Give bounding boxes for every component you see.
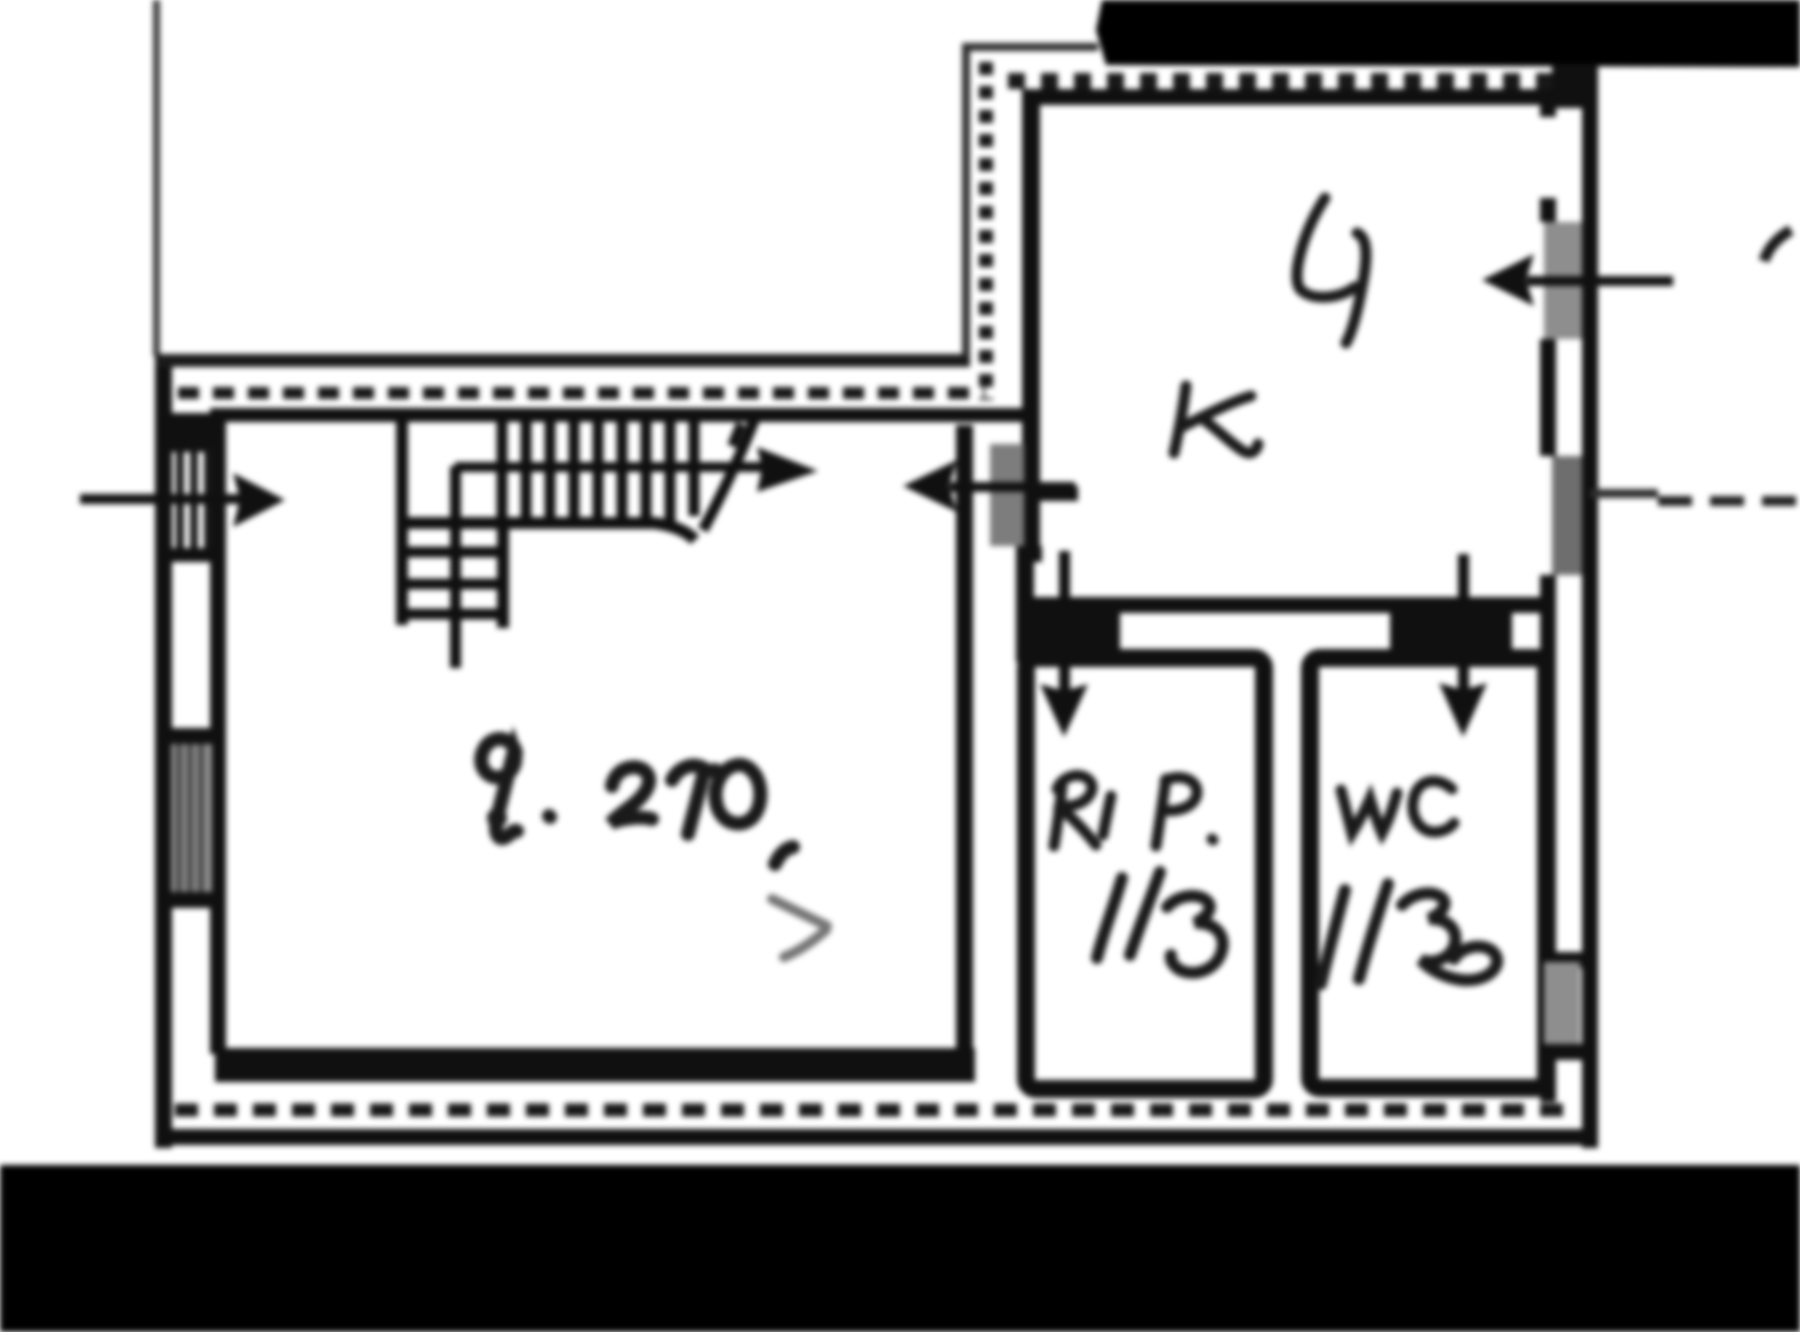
label K (K room) bbox=[1174, 386, 1258, 453]
inner wall left line bbox=[210, 408, 226, 1054]
handwritten chevron (main room) bbox=[772, 899, 827, 957]
stairwell left line bbox=[396, 418, 408, 625]
dashed insulation line top wall bbox=[178, 387, 985, 399]
K top-right wall corner bbox=[1552, 64, 1598, 108]
arrow into main room from hall (head) bbox=[903, 460, 957, 512]
outer wall left bbox=[155, 354, 172, 1148]
entrance arrow left (head) bbox=[233, 473, 285, 527]
label WC (wc room) bbox=[1341, 781, 1454, 833]
neighbour wall line right bbox=[1590, 489, 1658, 498]
window K1 (right wall of K, shaded) bbox=[1544, 222, 1582, 339]
label 1/3 (wc room) bbox=[1321, 884, 1497, 984]
window K2 (right wall of K, shaded) bbox=[1552, 456, 1582, 575]
main room bottom inner wall bbox=[215, 1048, 975, 1082]
stair walk line bbox=[455, 462, 762, 472]
hall right line / RIP left wall upper bbox=[1016, 562, 1034, 662]
stair centre string line bbox=[450, 466, 461, 668]
knot of letter l bbox=[487, 808, 507, 828]
neighbouring building mass top-right bbox=[1096, 0, 1800, 67]
main room right wall line bbox=[956, 425, 973, 1075]
stair lower flight treads bbox=[401, 552, 508, 614]
inner wall line top (main room) bbox=[210, 408, 1040, 422]
label 1/3 (rip room) bbox=[1097, 872, 1223, 973]
arrow into WC room (head) bbox=[1439, 683, 1487, 737]
outer wall top (main room) bbox=[155, 354, 970, 367]
door leaf (entrance, grey) bbox=[990, 444, 1024, 546]
site boundary line top-left bbox=[153, 0, 160, 356]
bottom-right outer corner bbox=[1582, 1100, 1598, 1147]
arrow into K room from right (head) bbox=[1482, 254, 1534, 306]
balcony dashed line horizontal (top of K) bbox=[1008, 73, 1592, 89]
arrow into RIP room (shaft) bbox=[1059, 551, 1070, 696]
label 4 (K room) bbox=[1297, 198, 1366, 343]
wall cap below window W1 bbox=[155, 548, 226, 562]
door frame stub bbox=[1030, 486, 1078, 501]
window WC1 (right wall of WC, shaded) bbox=[1544, 962, 1580, 1052]
handwritten tick far right bbox=[1764, 230, 1791, 261]
right inner wall segment 4 (long) bbox=[1540, 575, 1556, 958]
stair walk arrow head bbox=[757, 447, 818, 492]
right inner wall segment 3 bbox=[1540, 339, 1556, 456]
K room left wall bottom cap bbox=[1016, 546, 1042, 562]
wall cap above window WC1 bbox=[1540, 952, 1582, 968]
K bottom wall solid band right bbox=[1390, 597, 1512, 650]
right inner wall segment top bbox=[1540, 99, 1556, 117]
bottom outer wall line bbox=[158, 1129, 1585, 1145]
right inner wall segment 2 bbox=[1540, 198, 1556, 222]
stair lower flight right edge bbox=[497, 517, 509, 628]
stair break line (diagonal) bbox=[703, 413, 757, 530]
arrow into K room from right (shaft) bbox=[1527, 276, 1673, 286]
K bottom wall solid band left bbox=[1021, 597, 1120, 650]
window W2 (left wall, lower, shaded) bbox=[171, 744, 212, 892]
label h.270 (main room) bbox=[481, 739, 793, 864]
window W1 (left wall, upper) bbox=[180, 449, 208, 556]
wall cap below window W2 bbox=[155, 892, 226, 908]
bottom wall dashed line bbox=[175, 1104, 1565, 1117]
arrow into RIP room (head) bbox=[1040, 684, 1088, 737]
arrow into main room from hall (shaft) bbox=[950, 482, 1075, 492]
K room top inner wall bbox=[1022, 89, 1558, 105]
balcony outer edge horizontal bbox=[962, 43, 1098, 51]
entrance arrow left (shaft) bbox=[80, 494, 245, 504]
K room left wall bbox=[1022, 89, 1040, 549]
RIP room outline bbox=[1026, 658, 1264, 1089]
wall cap above window W2 bbox=[155, 728, 226, 744]
balcony outer edge vertical bbox=[962, 43, 970, 356]
K room bottom wall top line bbox=[1034, 597, 1544, 613]
stair flight bottom line bbox=[396, 523, 695, 540]
stair break tick bbox=[732, 424, 741, 446]
balcony dashed line vertical bbox=[979, 62, 993, 400]
stair upper flight risers bbox=[502, 420, 694, 524]
street mass bottom bbox=[0, 1165, 1800, 1332]
wall cap below window WC1 bbox=[1540, 1044, 1582, 1060]
arrow into WC room (shaft) bbox=[1458, 554, 1469, 694]
WC room outline bbox=[1310, 658, 1546, 1088]
label RIP. (rip room) bbox=[1054, 775, 1213, 846]
neighbour dashed line right bbox=[1658, 496, 1800, 506]
right inner wall segment bottom bbox=[1540, 1052, 1556, 1102]
wall cap above window W1 bbox=[155, 413, 226, 452]
right outer wall bbox=[1582, 64, 1598, 1148]
